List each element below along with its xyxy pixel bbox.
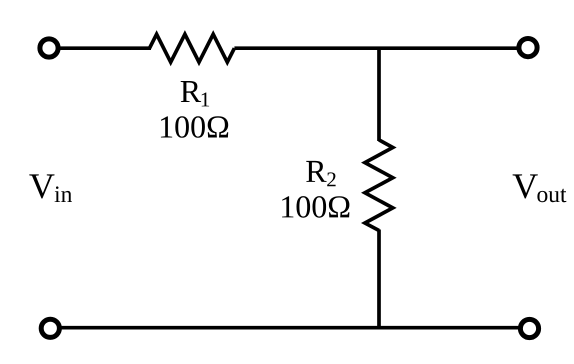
resistor R2 (365, 140, 393, 231)
label R1 (181, 81, 209, 106)
wire top-left segment (59, 46, 152, 50)
label R2 value 100ohm (282, 196, 349, 218)
label Vout (513, 174, 567, 202)
wire vertical lower (377, 230, 381, 328)
terminal output bottom-right (520, 319, 538, 337)
wire vertical upper (377, 48, 381, 141)
wire top-right segment (234, 46, 518, 50)
label R1 value 100ohm (161, 116, 228, 138)
terminal input top-left (40, 39, 58, 57)
terminal output top-right (519, 39, 537, 57)
terminal input bottom-left (41, 319, 59, 337)
wire bottom (60, 326, 520, 330)
label Vin (29, 174, 72, 202)
resistor R1 (150, 34, 235, 62)
label R2 (306, 161, 335, 186)
